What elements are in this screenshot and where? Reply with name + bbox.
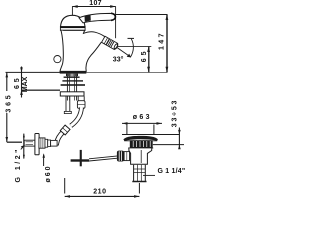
faucet dome cap: [60, 15, 85, 30]
svg-text:G 1/2": G 1/2": [15, 147, 22, 182]
spout aerator: [102, 36, 120, 50]
hose nut (angled): [60, 125, 70, 135]
svg-text:210: 210: [93, 189, 106, 196]
connector collars: [45, 139, 57, 147]
svg-text:147: 147: [159, 31, 166, 50]
deck line: [6, 71, 168, 73]
washer 2: [62, 80, 83, 81]
supply hose S-curve: [50, 108, 82, 144]
svg-text:365: 365: [5, 93, 12, 113]
shank under deck: [67, 74, 76, 101]
lever handle: [79, 13, 115, 23]
pop-up rod cross linkage: [71, 150, 118, 166]
svg-text:ø63: ø63: [133, 114, 152, 121]
svg-text:65: 65: [141, 49, 148, 63]
dimension 210 bottom: [65, 178, 140, 198]
washer 3: [61, 84, 85, 86]
svg-text:65: 65: [14, 76, 21, 89]
drain flange lip: [128, 147, 153, 149]
drain body: [129, 148, 152, 164]
supply inlet fitting: [77, 97, 85, 109]
drain pop-up cap: [123, 136, 157, 141]
pop-up knob on body: [54, 56, 61, 63]
wall supply: stub pipe: [24, 140, 35, 146]
faucet body: [54, 30, 105, 76]
label G 1/2": [15, 145, 24, 182]
washer 1: [64, 77, 80, 78]
lever collar: [85, 15, 91, 22]
dimension 107 top: [72, 0, 116, 38]
dimension 365 left: [5, 72, 22, 142]
wall line: [23, 134, 25, 159]
dimension diameter 63 (drain cap): [122, 114, 162, 134]
svg-text:G 1 1/4": G 1 1/4": [158, 168, 186, 175]
svg-text:MAX: MAX: [22, 76, 29, 92]
svg-text:107: 107: [89, 0, 102, 7]
connector hex nut: [39, 138, 45, 148]
wall flange: [35, 134, 39, 155]
drain knurled ring: [130, 140, 153, 147]
drain rod ball nut: [117, 151, 130, 162]
body shoulder / spout housing: [83, 30, 104, 36]
drain tailpiece: [132, 165, 146, 182]
svg-text:33°: 33°: [113, 55, 124, 63]
supply tube left (pop-up rod guide): [64, 96, 71, 114]
lock nut: [60, 92, 84, 96]
base gasket hatch: [67, 74, 78, 77]
dimension 33-53 right (flange range): [122, 99, 184, 149]
svg-text:33÷53: 33÷53: [172, 99, 179, 127]
label diameter 60: [43, 153, 53, 182]
dimension 65 MAX left: [14, 67, 60, 98]
label G 1 1/4": [143, 168, 185, 176]
base bottom bar: [60, 71, 87, 73]
angle 33 degrees: [113, 38, 134, 63]
dimension 147 right: [116, 15, 168, 73]
svg-text:ø60: ø60: [45, 164, 52, 182]
cap ring band: [60, 27, 85, 31]
dimension 65 right (spout height): [117, 47, 151, 73]
